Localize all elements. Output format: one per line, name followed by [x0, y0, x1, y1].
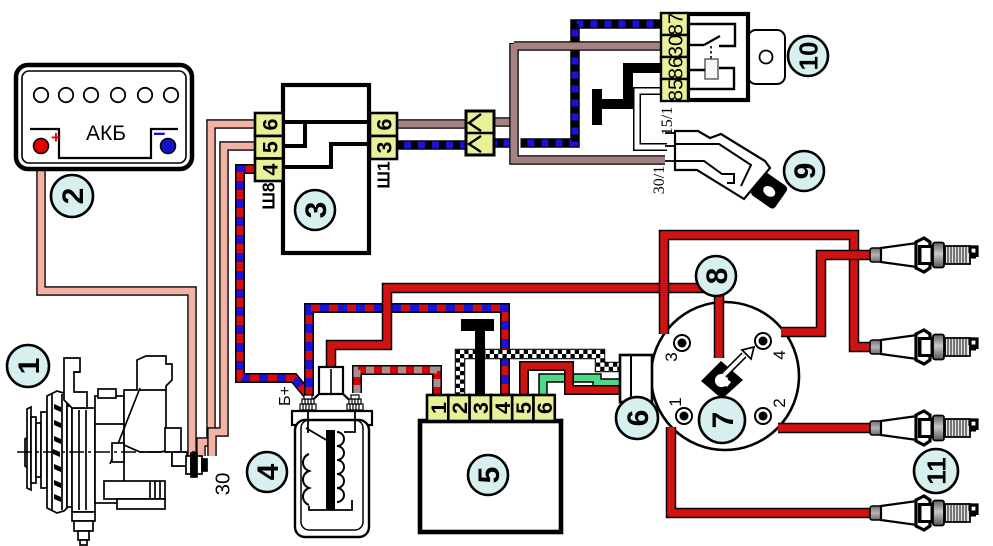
commutator pin 6 — [534, 395, 555, 421]
distributor internals — [662, 333, 789, 424]
rotor arrow — [724, 347, 754, 375]
wire: blue/red Sh8 pin4 loop to coil B+ — [240, 169, 308, 395]
relay 10 — [661, 13, 785, 102]
relay pin 30 — [661, 35, 688, 57]
ground bar for relay wire — [592, 89, 602, 125]
generator 1 — [17, 356, 207, 545]
commutator pin 5 — [512, 395, 533, 421]
spark plug 4 — [870, 496, 977, 530]
svg-text:30: 30 — [664, 35, 687, 58]
key head black — [750, 171, 789, 210]
switch inner contour 1 — [675, 144, 751, 186]
coil body — [295, 420, 369, 537]
svg-text:Ш8: Ш8 — [258, 182, 278, 210]
ignition switch 9 — [665, 131, 789, 210]
wire: red plug lead terminal4 to spark plug 1 — [781, 255, 871, 332]
wire: striped red/gray coil B to commutator pin1 — [357, 370, 437, 397]
battery + terminal — [34, 139, 49, 154]
connector Sh8 pin 6 — [255, 113, 283, 136]
bottom front foot — [72, 512, 95, 521]
relay body — [688, 14, 748, 100]
wire: brown Sh1 pin6 stub to connector — [397, 119, 466, 129]
spark plug 1 — [870, 238, 977, 272]
relay coil feed line — [688, 69, 705, 71]
svg-text:4: 4 — [252, 463, 285, 480]
hall sensor connector 6 — [620, 355, 652, 402]
commutator pin 3 — [470, 395, 491, 421]
svg-text:Ш1: Ш1 — [373, 161, 393, 189]
wire: brown junction to relay 30 and ignition switch 30/1 — [514, 43, 665, 160]
callout 10 — [788, 36, 828, 76]
commutator pin 1 — [427, 395, 448, 421]
battery AKB 2 — [16, 65, 192, 169]
connector Sh1 pin 6 — [370, 113, 397, 136]
relay mounting tab — [748, 30, 785, 84]
svg-text:87: 87 — [664, 13, 687, 36]
front plate column — [72, 408, 95, 512]
wire: checkered black/white commutator pin2 to hall connector — [460, 354, 620, 397]
wire: red HT coil center to distributor rotor — [331, 288, 719, 366]
wire: red plug lead terminal3 to spark plug 2 — [664, 235, 871, 347]
svg-text:6: 6 — [373, 118, 397, 130]
wire: red plug lead terminal1 to spark plug 4 — [671, 427, 871, 513]
right tall block — [124, 356, 172, 452]
svg-text:6: 6 — [258, 118, 282, 130]
callout 5 — [468, 455, 508, 495]
switch contact stubs — [665, 132, 676, 134]
svg-text:+: + — [51, 128, 61, 147]
wire: red commutator pin5 to hall connector — [524, 366, 620, 397]
svg-text:Б+: Б+ — [277, 386, 294, 406]
wire: white 15/1 relay 85 to ignition switch — [637, 91, 667, 147]
rotor — [701, 361, 743, 399]
terminal 2 — [755, 408, 771, 424]
svg-text:2: 2 — [57, 188, 90, 205]
callout 2 — [51, 175, 93, 217]
ignition coil 4 — [292, 367, 372, 537]
wire: black ground T at commutator pin3 — [475, 325, 485, 397]
svg-text:9: 9 — [789, 163, 822, 180]
distributor body 7 — [651, 302, 799, 450]
wire: pink battery + to generator 30 — [41, 152, 192, 456]
svg-text:10: 10 — [793, 42, 823, 71]
right rear bracket — [165, 428, 181, 466]
relay armature link dotted — [710, 46, 712, 60]
svg-text:11: 11 — [921, 457, 951, 485]
relay pin 86 — [661, 57, 688, 79]
connector Sh8 pin 4 — [255, 159, 283, 182]
big diagonal rib — [110, 388, 140, 464]
svg-text:30/1: 30/1 — [651, 166, 668, 194]
pulley thin blade — [25, 437, 28, 468]
callout 9 — [784, 151, 824, 191]
mounting block 3 with connectors — [255, 85, 397, 253]
commutator unit 5 — [420, 395, 561, 532]
svg-text:1: 1 — [13, 358, 46, 375]
callout 3 — [295, 190, 335, 230]
wire: red plug lead terminal2 to spark plug 3 — [778, 423, 871, 434]
rear thin plate — [67, 406, 72, 507]
wire: pink Sh8 pin6 to generator — [201, 124, 255, 456]
callout 6 — [616, 397, 658, 439]
coil internal connections — [308, 412, 309, 432]
relay switch blade — [704, 36, 720, 45]
terminal 1 — [676, 408, 692, 424]
wire: black ground from relay 86 — [598, 68, 661, 104]
svg-text:3: 3 — [373, 141, 397, 153]
svg-text:6: 6 — [622, 410, 655, 427]
coil primary winding — [303, 454, 309, 505]
internal wire pin6-pin6 — [283, 120, 367, 124]
generator output bolt 30 — [186, 456, 191, 474]
relay contact 87 line — [688, 24, 735, 46]
relay pin 87 — [661, 13, 688, 35]
battery - terminal — [161, 139, 176, 154]
svg-text:8: 8 — [701, 268, 734, 285]
svg-text:5: 5 — [258, 141, 282, 153]
pulley cone rings — [31, 417, 36, 483]
svg-text:4: 4 — [770, 350, 789, 359]
terminal 4 — [755, 333, 771, 349]
svg-text:АКБ: АКБ — [86, 122, 126, 145]
switch inner contour 2 — [675, 161, 734, 183]
fan blades — [53, 404, 61, 502]
switch body — [675, 131, 770, 199]
wire: blue/black connector to relay 87 (segment before brown) — [494, 138, 510, 148]
coil secondary winding — [337, 432, 344, 502]
svg-text:3: 3 — [662, 352, 681, 361]
commutator pin 2 — [448, 395, 469, 421]
svg-text:86: 86 — [664, 57, 687, 80]
svg-text:85: 85 — [664, 79, 687, 102]
wire: blue/black connector to relay 87 (after brown) — [521, 24, 662, 143]
wire: pink Sh8 pin5 to generator — [212, 146, 255, 456]
callout 1 — [7, 345, 49, 387]
relay contact 85 line — [688, 68, 734, 89]
svg-text:30: 30 — [211, 473, 234, 496]
relay contact 30 line — [688, 44, 704, 46]
shaft centerline — [17, 451, 196, 453]
bottom rear housing — [104, 481, 165, 499]
fan disc — [47, 391, 67, 513]
wire: brown connector to junction — [494, 117, 515, 127]
wire: blue/red coil B+ to commutator pin4 — [309, 308, 505, 397]
svg-text:4: 4 — [258, 164, 282, 176]
coil flange — [292, 411, 372, 425]
svg-text:15/1: 15/1 — [659, 107, 676, 135]
svg-text:2: 2 — [770, 398, 789, 407]
svg-text:3: 3 — [469, 402, 493, 414]
coil HV tower — [319, 367, 343, 411]
top-left bracket — [64, 358, 87, 408]
callout 7 — [699, 397, 745, 443]
wire: blue/black Sh1 pin3 stub — [397, 140, 466, 150]
connector Sh8 pin 5 — [255, 136, 283, 159]
svg-text:6: 6 — [533, 402, 557, 414]
coil terminal bolt B — [347, 395, 363, 410]
internal wire pin4 to pin3 — [283, 144, 369, 167]
wire: green commutator pin6 to hall connector — [543, 378, 620, 399]
coil cap trapezoid — [300, 394, 362, 412]
coil core — [326, 430, 335, 510]
terminal 3 — [674, 335, 690, 351]
shaft key box — [112, 443, 124, 462]
svg-text:1: 1 — [666, 397, 685, 406]
coil terminal bolt B+ — [300, 395, 316, 410]
terminal step — [172, 452, 187, 466]
callout 4 — [247, 452, 287, 492]
commutator pin 4 — [491, 395, 512, 421]
spark plug 2 — [870, 330, 977, 364]
relay pin 85 — [661, 79, 688, 101]
callout 11 — [914, 449, 958, 493]
svg-text:5: 5 — [473, 467, 506, 484]
inline connector symbol (chevrons) — [466, 111, 494, 155]
internal wire pin5 branch — [283, 122, 305, 146]
callout 8 — [696, 256, 736, 296]
svg-text:3: 3 — [300, 202, 333, 219]
svg-text:−: − — [153, 122, 166, 146]
spark plug 3 — [870, 411, 977, 445]
relay coil — [705, 59, 718, 79]
wire: red HT rotor feed inside cap — [714, 288, 725, 358]
center body block — [95, 396, 124, 503]
svg-text:7: 7 — [707, 412, 740, 429]
connector Sh1 pin 3 — [370, 136, 397, 159]
